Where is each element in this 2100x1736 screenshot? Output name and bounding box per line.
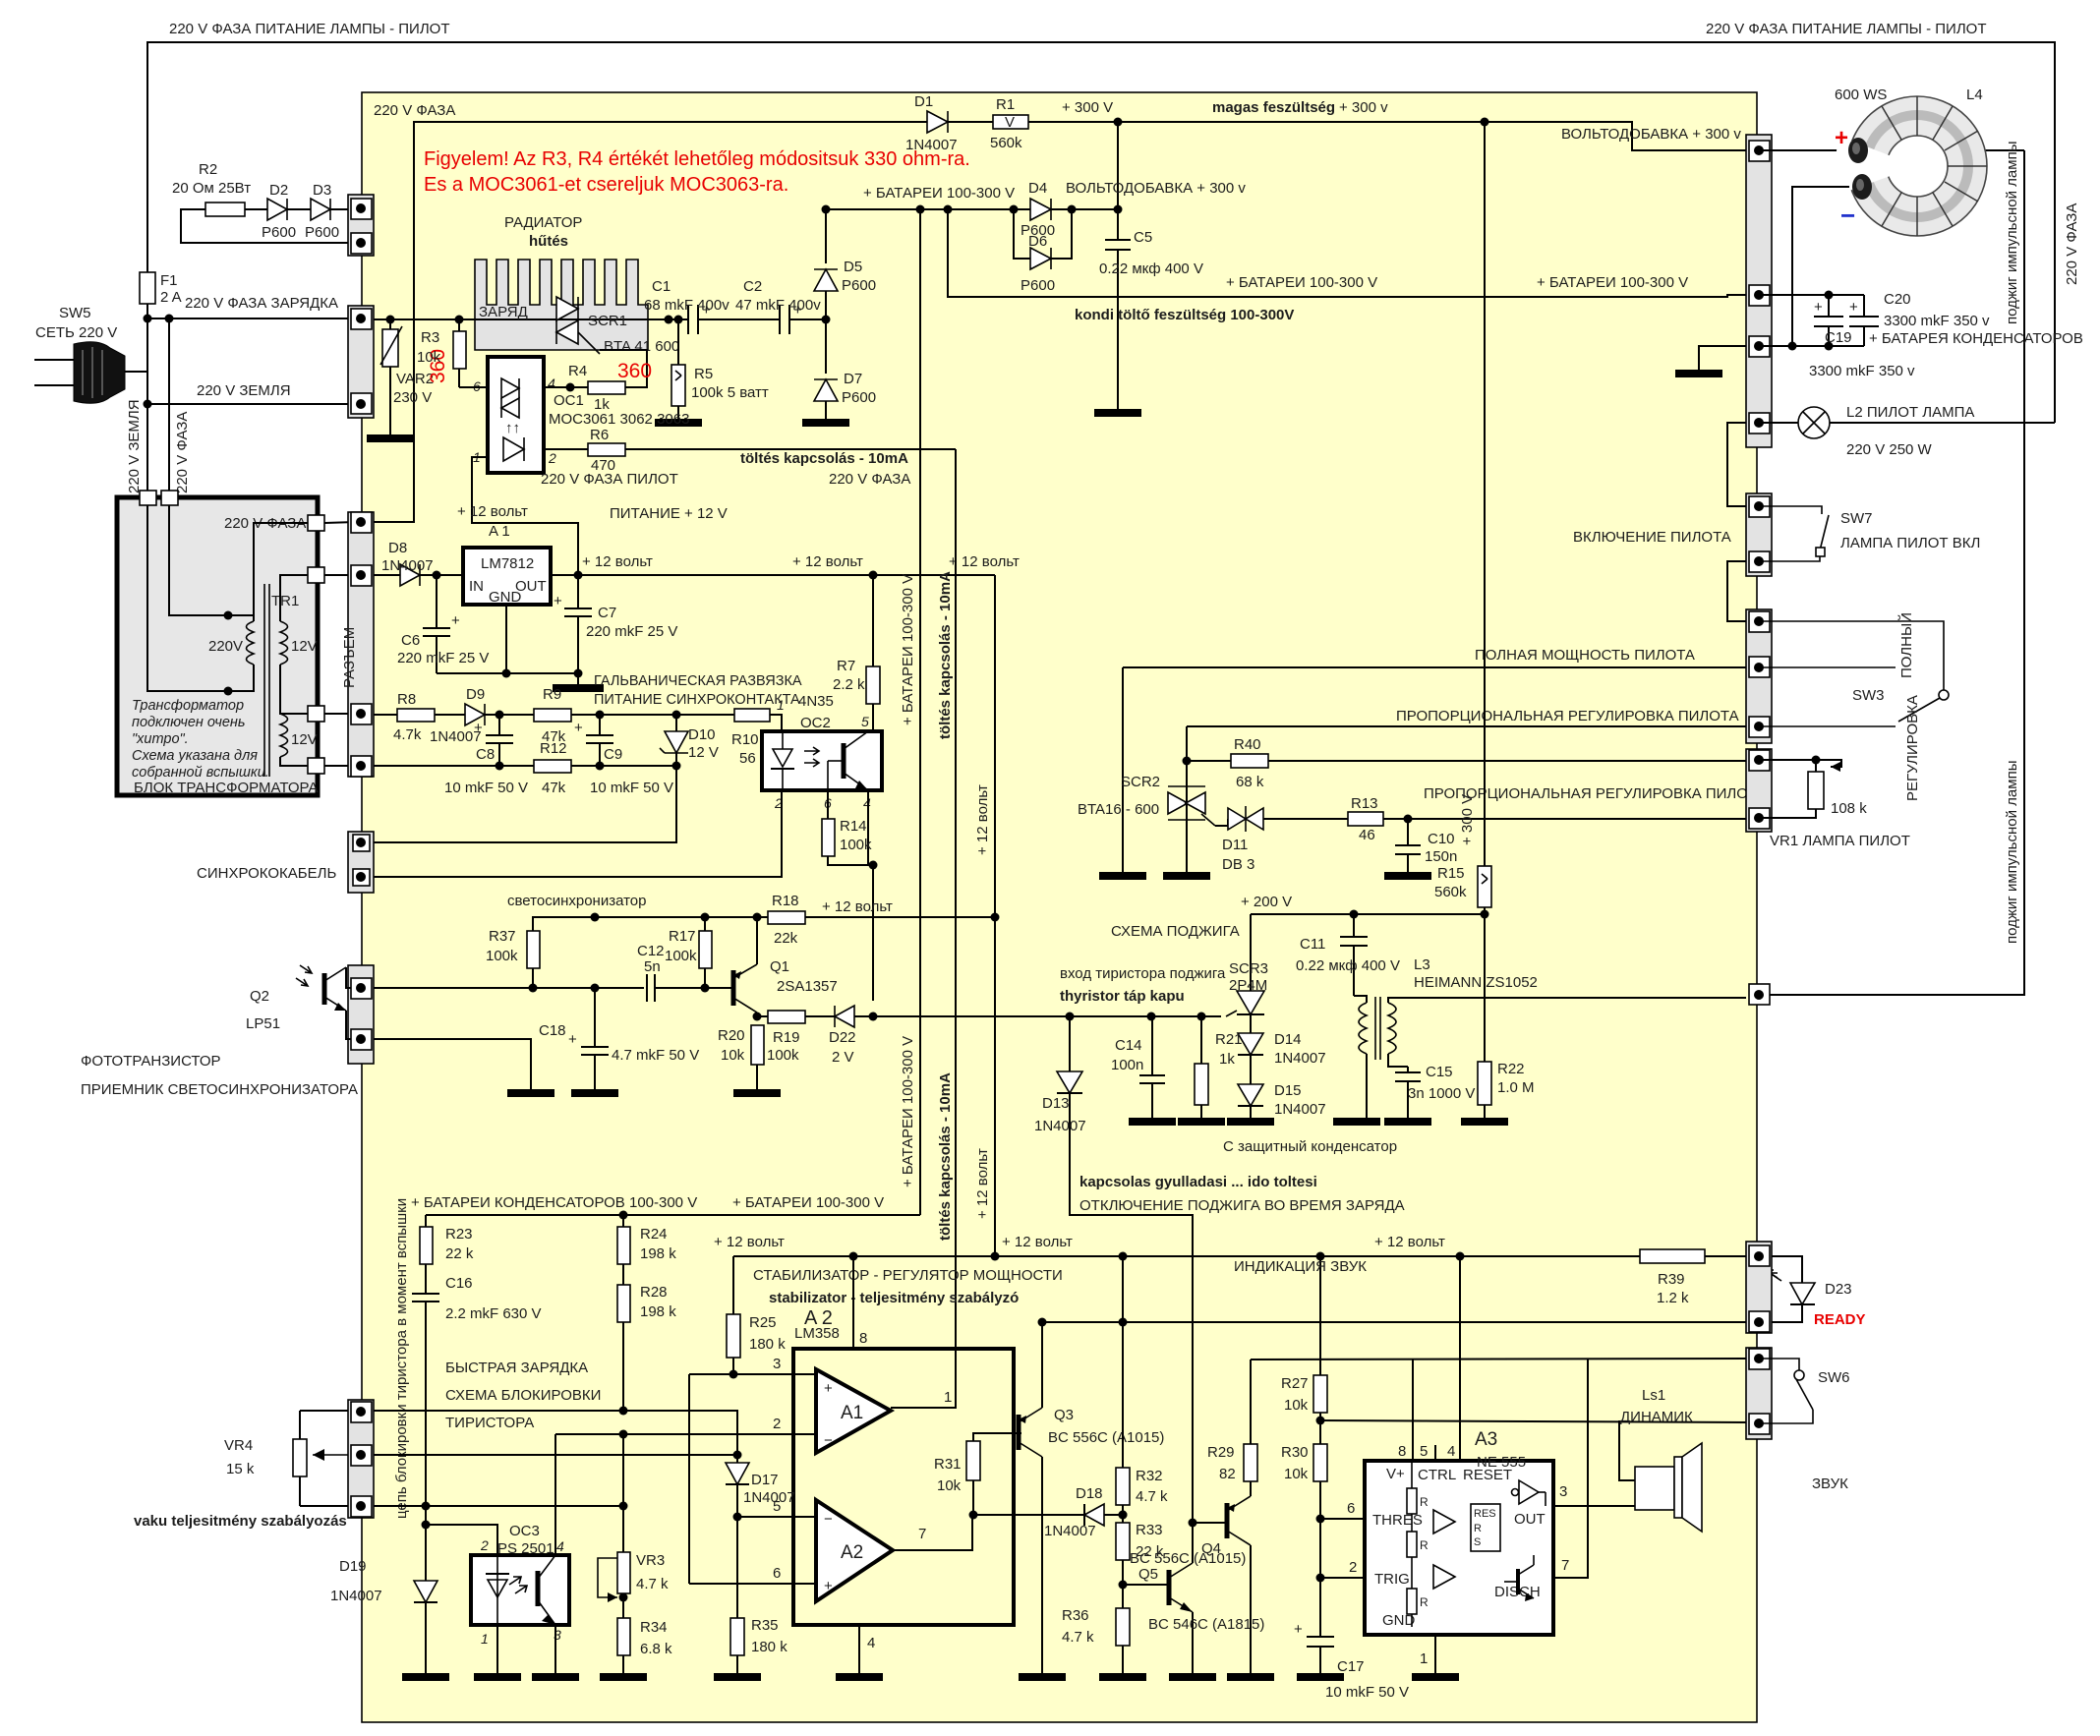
svg-text:L4: L4: [1966, 87, 1983, 103]
svg-text:47 mkF 400v: 47 mkF 400v: [735, 297, 821, 314]
svg-text:R29: R29: [1207, 1444, 1235, 1461]
svg-text:+ 300 v: + 300 v: [1339, 99, 1388, 116]
svg-text:Q2: Q2: [250, 988, 269, 1005]
ground under NE555: [1412, 1673, 1459, 1681]
svg-text:R24: R24: [640, 1226, 668, 1243]
svg-text:220V: 220V: [208, 638, 243, 655]
contact trigger entry: [1749, 984, 1770, 1005]
svg-text:100k: 100k: [486, 948, 518, 964]
resistor R36: [1116, 1608, 1130, 1646]
svg-text:180 k: 180 k: [751, 1639, 787, 1655]
svg-text:R35: R35: [751, 1617, 779, 1634]
svg-text:3300 mkF 350 v: 3300 mkF 350 v: [1884, 313, 1990, 329]
svg-text:RESET: RESET: [1463, 1467, 1512, 1483]
svg-text:22 k: 22 k: [445, 1245, 474, 1262]
svg-text:P600: P600: [842, 277, 876, 294]
diode D6 parallel branch: [1014, 209, 1030, 259]
svg-text:Figyelem! Az R3, R4 értékét le: Figyelem! Az R3, R4 értékét lehetőleg mó…: [424, 148, 970, 170]
wire pin4/R14 node down: [872, 865, 874, 1001]
TR1 primary coil: [247, 621, 255, 665]
resistor R18: [768, 911, 805, 924]
diode D17: [726, 1463, 749, 1484]
svg-text:BC 546C (A1815): BC 546C (A1815): [1148, 1616, 1264, 1633]
wire D8 to LM7812: [420, 574, 463, 576]
wire pin3: [689, 1373, 816, 1375]
svg-text:220 V ФАЗА ПИТАНИЕ ЛАМПЫ - ПИ: 220 V ФАЗА ПИТАНИЕ ЛАМПЫ - ПИЛОТ: [169, 21, 450, 37]
svg-text:C14: C14: [1115, 1037, 1142, 1054]
wire caps top rail: [1759, 294, 1864, 296]
wire speaker out link: [1634, 1489, 1636, 1491]
connector strip D2/D3: [348, 195, 374, 256]
resistor R21: [1195, 1064, 1208, 1105]
svg-text:R2: R2: [199, 161, 217, 178]
wire батареи bus y=213: [826, 208, 1118, 210]
junction VAR2: [386, 316, 395, 324]
svg-text:220 V ФАЗА: 220 V ФАЗА: [374, 102, 455, 119]
wire D18 line y=1541: [973, 1514, 1083, 1516]
svg-text:R: R: [1474, 1523, 1482, 1534]
ground under Q4: [1227, 1673, 1274, 1681]
NE555 discharge transistor: [1516, 1569, 1520, 1594]
resistor R37: [527, 931, 540, 968]
wire батареи 100-300 bus y=302: [948, 209, 1746, 297]
svg-text:1N4007: 1N4007: [743, 1489, 795, 1506]
svg-text:+ БАТАРЕИ 100-300 V: + БАТАРЕИ 100-300 V: [732, 1194, 884, 1211]
OC1 triac symbols: [501, 378, 519, 398]
svg-text:R15: R15: [1437, 865, 1465, 882]
TR1 wire to 220V top square: [254, 523, 310, 615]
svg-text:8: 8: [859, 1330, 867, 1347]
svg-text:P600: P600: [1021, 277, 1055, 294]
svg-text:10k: 10k: [937, 1477, 962, 1494]
svg-text:цепь блокировки тиристора в мо: цепь блокировки тиристора в момент вспыш…: [393, 1198, 410, 1519]
wire A1 output pin1: [891, 1407, 956, 1409]
svg-text:SW3: SW3: [1852, 687, 1885, 704]
svg-text:600 WS: 600 WS: [1835, 87, 1887, 103]
svg-text:R21: R21: [1215, 1031, 1243, 1048]
svg-text:4: 4: [867, 1635, 875, 1651]
switch SW3: [1759, 621, 1944, 690]
svg-text:56: 56: [739, 750, 756, 767]
svg-text:D14: D14: [1274, 1031, 1302, 1048]
svg-text:R30: R30: [1281, 1444, 1309, 1461]
OC2 led: [773, 749, 792, 767]
capacitor C6: [436, 575, 437, 628]
connector strip VR1: [1746, 749, 1772, 832]
svg-text:R22: R22: [1497, 1061, 1525, 1077]
svg-text:MOC3061 3062 3063: MOC3061 3062 3063: [549, 411, 689, 428]
svg-text:10 mkF 50 V: 10 mkF 50 V: [1325, 1684, 1409, 1701]
TR1 core: [263, 584, 265, 777]
svg-text:68 mkF 400v: 68 mkF 400v: [644, 297, 729, 314]
wire NE555 pin5 stub: [1434, 1445, 1436, 1461]
svg-text:D9: D9: [466, 686, 485, 703]
svg-text:SCR1: SCR1: [588, 313, 627, 329]
svg-text:D11: D11: [1222, 837, 1248, 853]
connector strip SW6: [1746, 1348, 1772, 1439]
resistor R12: [534, 760, 571, 773]
svg-text:R8: R8: [397, 691, 416, 708]
svg-text:BC 556C (A1015): BC 556C (A1015): [1130, 1550, 1246, 1567]
svg-text:1.0 M: 1.0 M: [1497, 1079, 1535, 1096]
svg-text:ОТКЛЮЧЕНИЕ ПОДЖИГА ВО ВРЕМЯ ЗА: ОТКЛЮЧЕНИЕ ПОДЖИГА ВО ВРЕМЯ ЗАРЯДА: [1079, 1197, 1405, 1214]
svg-text:R12: R12: [540, 740, 567, 757]
wire light sync +12 y=933: [533, 917, 995, 931]
svg-text:3: 3: [1559, 1483, 1567, 1500]
svg-text:1: 1: [777, 697, 785, 713]
svg-text:+ БАТАРЕИ 100-300 V: + БАТАРЕИ 100-300 V: [1537, 274, 1688, 291]
svg-text:−: −: [1840, 201, 1855, 230]
svg-text:собранной вспышки.: собранной вспышки.: [132, 765, 269, 781]
svg-text:10k: 10k: [721, 1047, 745, 1064]
svg-text:РАДИАТОР: РАДИАТОР: [504, 214, 582, 231]
svg-text:3300 mkF 350 v: 3300 mkF 350 v: [1809, 363, 1915, 379]
svg-text:S: S: [1474, 1536, 1481, 1548]
resistor R10: [734, 709, 770, 722]
wire NE555 pin4: [1459, 1256, 1461, 1461]
wire THRES pin6: [1320, 1518, 1365, 1520]
wire D23 loop: [1759, 1256, 1802, 1283]
diode D13: [1069, 1016, 1071, 1071]
svg-text:DB 3: DB 3: [1222, 856, 1254, 873]
wire speaker/pin8 rail y=1383: [1251, 1359, 1746, 1360]
ground under D15: [1227, 1118, 1274, 1126]
capacitor C2: [779, 305, 781, 334]
svg-text:R32: R32: [1136, 1468, 1163, 1484]
svg-text:C17: C17: [1337, 1658, 1365, 1675]
svg-text:1: 1: [481, 1631, 489, 1647]
ground under R36: [1099, 1673, 1146, 1681]
resistor R8: [397, 709, 435, 722]
ground under VAR2: [367, 434, 414, 442]
svg-text:+ 12 вольт: + 12 вольт: [974, 1148, 991, 1219]
svg-text:ПИТАНИЕ СИНХРОКОНТАКТА: ПИТАНИЕ СИНХРОКОНТАКТА: [594, 692, 800, 708]
timer A3 NE555 box: [1365, 1461, 1553, 1635]
ground under R5: [655, 419, 702, 427]
wire strip3 to OC3: [374, 1505, 426, 1507]
svg-text:560k: 560k: [1434, 884, 1467, 900]
connector strip Q2: [348, 965, 374, 1064]
ground under Q3: [1019, 1673, 1066, 1681]
potentiometer VR1: [1759, 760, 1841, 767]
wire 220V phase pilot from OC1 pin2: [543, 448, 545, 450]
OC2 transistor: [842, 743, 846, 779]
svg-text:+: +: [824, 1578, 833, 1594]
resistor R31: [966, 1441, 980, 1480]
diode D18: [1084, 1504, 1104, 1526]
ground under R22: [1461, 1118, 1508, 1126]
capacitor C7: [577, 575, 579, 608]
varistor VAR2: [382, 329, 398, 367]
svg-text:100n: 100n: [1111, 1057, 1143, 1073]
svg-text:stabilizator - teljesitmény sz: stabilizator - teljesitmény szabályzó: [769, 1290, 1019, 1306]
svg-text:R33: R33: [1136, 1522, 1163, 1538]
svg-text:R36: R36: [1062, 1607, 1089, 1624]
svg-text:P600: P600: [842, 389, 876, 406]
svg-text:2SA1357: 2SA1357: [777, 978, 838, 995]
svg-text:SW6: SW6: [1818, 1369, 1850, 1386]
svg-text:4N35: 4N35: [798, 693, 834, 710]
svg-text:СХЕМА БЛОКИРОВКИ: СХЕМА БЛОКИРОВКИ: [445, 1387, 601, 1404]
svg-text:BTA16 - 600: BTA16 - 600: [1078, 801, 1159, 818]
svg-text:R19: R19: [773, 1029, 800, 1046]
svg-text:230 V: 230 V: [393, 389, 432, 406]
transformer block TR1 box: [117, 497, 318, 795]
OC3 transistor: [536, 1571, 541, 1606]
resistor R6: [588, 443, 625, 456]
OC1 led symbol: [503, 437, 524, 461]
svg-text:↑↑: ↑↑: [505, 420, 520, 436]
wire strip1 to D17 node: [374, 1411, 737, 1463]
resistor R4: [588, 381, 625, 394]
svg-text:5: 5: [861, 714, 869, 729]
svg-text:D7: D7: [844, 371, 862, 387]
wire output node to D18 line: [896, 1407, 898, 1409]
wire LM7812 out +12: [551, 574, 995, 576]
svg-text:L2 ПИЛОТ ЛАМПА: L2 ПИЛОТ ЛАМПА: [1846, 404, 1974, 421]
svg-text:GND: GND: [489, 589, 522, 606]
svg-text:Схема указана для: Схема указана для: [132, 748, 258, 764]
svg-text:C11: C11: [1300, 936, 1325, 953]
svg-text:thyristor táp kapu: thyristor táp kapu: [1060, 988, 1185, 1005]
connector strip SW7: [1746, 493, 1772, 576]
wire top bus 220V phase: [147, 42, 2055, 423]
svg-text:4.7 k: 4.7 k: [1062, 1629, 1094, 1646]
ground under D19: [402, 1673, 449, 1681]
svg-text:220 V 250 W: 220 V 250 W: [1846, 441, 1933, 458]
connector strip READY: [1746, 1242, 1772, 1333]
svg-text:C12: C12: [637, 943, 665, 959]
svg-text:0.22 мкф 400 V: 0.22 мкф 400 V: [1099, 260, 1203, 277]
resistor R17: [699, 931, 712, 968]
svg-text:R: R: [1420, 1538, 1429, 1552]
svg-text:D4: D4: [1028, 180, 1047, 197]
svg-text:A2: A2: [841, 1542, 863, 1563]
svg-text:READY: READY: [1814, 1311, 1866, 1328]
wire +12 bus bottom y=1278: [733, 1255, 1640, 1257]
svg-text:1N4007: 1N4007: [1034, 1118, 1086, 1134]
svg-text:C8: C8: [476, 746, 495, 763]
svg-text:15 k: 15 k: [226, 1461, 255, 1477]
svg-text:5n: 5n: [644, 958, 661, 975]
svg-text:VR3: VR3: [636, 1552, 665, 1569]
svg-text:töltés kapcsolás - 10mA: töltés kapcsolás - 10mA: [937, 571, 954, 739]
svg-text:6.8 k: 6.8 k: [640, 1641, 672, 1657]
zener D10: [675, 715, 677, 731]
svg-text:R23: R23: [445, 1226, 473, 1243]
resistor R27: [1313, 1375, 1327, 1413]
wire LM7812 gnd: [437, 605, 506, 673]
capacitor C5: [1105, 239, 1131, 241]
ground under R35: [714, 1673, 761, 1681]
resistor R3: [453, 331, 466, 369]
svg-text:150n: 150n: [1425, 848, 1457, 865]
wire pin2 from OC3 pin4: [554, 1434, 556, 1555]
wire SCR2 anode vertical: [1122, 667, 1124, 874]
capacitor C12: [646, 974, 648, 1002]
svg-text:ДИНАМИК: ДИНАМИК: [1620, 1409, 1693, 1425]
svg-text:+ БАТАРЕИ КОНДЕНСАТОРОВ 100-: + БАТАРЕИ КОНДЕНСАТОРОВ 100-300 V: [411, 1194, 697, 1211]
svg-text:kondi töltő feszültség 100-300: kondi töltő feszültség 100-300V: [1075, 307, 1294, 323]
svg-text:+ 12 вольт: + 12 вольт: [792, 553, 863, 570]
svg-text:D18: D18: [1076, 1485, 1103, 1502]
svg-text:поджиг импульсной лампы: поджиг импульсной лампы: [2004, 761, 2020, 944]
svg-text:A1: A1: [841, 1403, 863, 1423]
connector strip right top: [1746, 135, 1772, 447]
svg-text:ЛАМПА ПИЛОТ ВКЛ: ЛАМПА ПИЛОТ ВКЛ: [1840, 535, 1980, 551]
svg-text:+ 12 вольт: + 12 вольт: [582, 553, 653, 570]
svg-text:12 V: 12 V: [688, 744, 719, 761]
svg-text:10k: 10k: [1284, 1397, 1309, 1414]
connector strip синхрокабель: [348, 832, 374, 893]
svg-text:+: +: [1849, 299, 1858, 316]
svg-text:+: +: [568, 1031, 577, 1048]
svg-text:Q1: Q1: [770, 958, 789, 975]
wire R32 chain vertical x=1142: [1122, 1256, 1124, 1468]
switch SW6: [1759, 1359, 1799, 1370]
svg-text:+ БАТАРЕЯ КОНДЕНСАТОРОВ: + БАТАРЕЯ КОНДЕНСАТОРОВ: [1869, 330, 2083, 347]
svg-text:töltés kapcsolás - 10mA: töltés kapcsolás - 10mA: [740, 450, 908, 467]
svg-text:220 V ФАЗА: 220 V ФАЗА: [174, 412, 191, 493]
svg-text:100k: 100k: [767, 1047, 799, 1064]
wire +12 long vertical x=1012: [994, 575, 996, 1256]
phototransistor Q2: [322, 973, 327, 1005]
capacitor C1: [687, 305, 689, 334]
connector strip VR4: [348, 1400, 374, 1518]
svg-text:Трансформатор: Трансформатор: [132, 698, 244, 714]
svg-text:D2: D2: [269, 182, 288, 199]
svg-text:2: 2: [548, 450, 556, 466]
heatsink РАДИАТОР: [475, 260, 648, 350]
svg-text:0.22 мкф 400 V: 0.22 мкф 400 V: [1296, 957, 1400, 974]
svg-text:R31: R31: [934, 1456, 962, 1473]
svg-text:töltés kapcsolás - 10mA: töltés kapcsolás - 10mA: [937, 1072, 954, 1241]
capacitor C9: [599, 715, 601, 735]
svg-text:+: +: [1294, 1621, 1303, 1638]
resistor R23: [420, 1227, 433, 1264]
wire speaker upper lead: [1619, 1420, 1635, 1480]
svg-text:198 k: 198 k: [640, 1245, 676, 1262]
svg-text:R17: R17: [669, 928, 696, 945]
svg-text:D10: D10: [688, 726, 716, 743]
svg-text:D6: D6: [1028, 233, 1047, 250]
wire R40/triac vertical x=1207: [1186, 726, 1188, 874]
wire пропорциональная y=739: [1187, 725, 1746, 727]
opamp A2: [816, 1500, 893, 1601]
svg-text:IN: IN: [469, 578, 484, 595]
ground under A2: [836, 1673, 883, 1681]
svg-text:R25: R25: [749, 1314, 777, 1331]
svg-text:R13: R13: [1351, 795, 1378, 812]
wire батареи конденсаторов bus y=1236: [426, 1214, 920, 1216]
svg-text:1k: 1k: [594, 396, 610, 413]
wire A2 output pin7: [893, 1515, 972, 1550]
wire +200V rail: [1251, 913, 1485, 915]
svg-text:БЛОК ТРАНСФОРМАТОРА: БЛОК ТРАНСФОРМАТОРА: [134, 780, 319, 796]
svg-text:+ 12 вольт: + 12 вольт: [457, 503, 528, 520]
wire поджиг trigger vertical: [1759, 150, 2024, 995]
OC2 light arrows: [804, 747, 819, 767]
resistor R32: [1116, 1468, 1130, 1505]
ground under C17: [1297, 1673, 1344, 1681]
plug SW5: [34, 342, 147, 404]
svg-text:R20: R20: [718, 1027, 745, 1044]
svg-text:5: 5: [773, 1498, 781, 1515]
svg-text:D19: D19: [339, 1558, 367, 1575]
svg-text:ГАЛЬВАНИЧЕСКАЯ РАЗВЯЗКА: ГАЛЬВАНИЧЕСКАЯ РАЗВЯЗКА: [594, 673, 802, 689]
svg-text:Q4: Q4: [1201, 1540, 1221, 1557]
wire OC2 pin5 from R7: [867, 730, 869, 732]
svg-text:8: 8: [1398, 1443, 1406, 1460]
svg-text:ПОЛНАЯ МОЩНОСТЬ ПИЛОТА: ПОЛНАЯ МОЩНОСТЬ ПИЛОТА: [1475, 647, 1695, 664]
resistor R13: [1348, 812, 1383, 826]
ground under R21: [1178, 1118, 1225, 1126]
wire VR3 feed: [426, 1506, 623, 1552]
svg-text:PS 2501: PS 2501: [497, 1540, 554, 1557]
transistor Q1: [731, 970, 736, 1006]
svg-text:hűtés: hűtés: [529, 233, 568, 250]
capacitor C19: [1828, 295, 1830, 317]
svg-text:3: 3: [773, 1356, 781, 1372]
svg-text:magas feszültség: magas feszültség: [1212, 99, 1335, 116]
resistor R40: [1231, 754, 1268, 768]
wire flash minus lead: [1759, 187, 1849, 346]
svg-text:A3: A3: [1475, 1429, 1497, 1450]
svg-text:ПРИЕМНИК СВЕТОСИНХРОНИЗАТОРА: ПРИЕМНИК СВЕТОСИНХРОНИЗАТОРА: [81, 1081, 358, 1098]
optocoupler OC3: [471, 1555, 569, 1625]
svg-text:7: 7: [1561, 1557, 1569, 1574]
svg-text:+ 12 вольт: + 12 вольт: [822, 898, 893, 915]
wire R27 node to SW6: [1320, 1420, 1753, 1422]
ground under R34: [600, 1673, 647, 1681]
thyristor SCR3: [1250, 914, 1252, 991]
ground under C14: [1129, 1118, 1176, 1126]
svg-text:BTA 41 600: BTA 41 600: [604, 338, 679, 355]
svg-text:+ 12 вольт: + 12 вольт: [1374, 1234, 1445, 1250]
svg-text:D23: D23: [1825, 1281, 1852, 1298]
wire +300V bus to right: [1028, 122, 1746, 150]
svg-text:4: 4: [556, 1538, 564, 1554]
OC3 pin1 pin3 wires: [496, 1625, 498, 1675]
svg-text:4: 4: [548, 376, 555, 391]
svg-text:LP51: LP51: [246, 1015, 280, 1032]
svg-text:10 mkF 50 V: 10 mkF 50 V: [444, 780, 528, 796]
svg-text:R37: R37: [489, 928, 516, 945]
wire DISCH pin7: [1553, 1359, 1588, 1578]
svg-text:220 V ФАЗА: 220 V ФАЗА: [2064, 203, 2080, 285]
svg-text:СТАБИЛИЗАТОР - РЕГУЛЯТОР МОЩНО: СТАБИЛИЗАТОР - РЕГУЛЯТОР МОЩНОСТИ: [753, 1267, 1063, 1284]
svg-text:1k: 1k: [1219, 1051, 1235, 1068]
svg-text:1N4007: 1N4007: [1274, 1101, 1326, 1118]
svg-text:D17: D17: [751, 1472, 779, 1488]
svg-text:10 mkF 50 V: 10 mkF 50 V: [590, 780, 673, 796]
ground under C18: [571, 1089, 618, 1097]
svg-text:2 V: 2 V: [832, 1049, 854, 1066]
junction R3: [455, 316, 464, 324]
resistor R34: [617, 1618, 630, 1655]
svg-text:+: +: [474, 720, 483, 736]
svg-text:C15: C15: [1426, 1064, 1453, 1080]
svg-text:C1: C1: [652, 278, 671, 295]
svg-text:R9: R9: [543, 686, 561, 703]
wire strip to D8: [374, 574, 400, 576]
capacitor C18: [594, 988, 596, 1047]
switch SW7: [1759, 506, 1822, 514]
svg-text:7: 7: [918, 1526, 926, 1542]
resistor R20: [751, 1025, 764, 1065]
svg-text:OC1: OC1: [554, 392, 584, 409]
svg-text:C10: C10: [1428, 831, 1455, 847]
